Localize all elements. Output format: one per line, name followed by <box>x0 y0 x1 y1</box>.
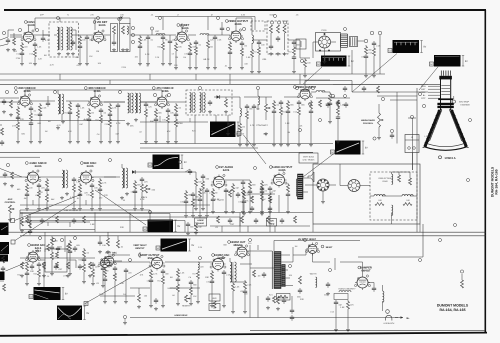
tube socket S5 yoke plug <box>348 180 360 192</box>
capacitor C20 det <box>209 100 211 102</box>
svg-text:100: 100 <box>378 199 381 202</box>
wire sync route 2 <box>20 213 170 215</box>
svg-text:10K: 10K <box>75 56 79 59</box>
svg-text:4.7K: 4.7K <box>84 118 89 121</box>
svg-text:BRIGHTNESS: BRIGHTNESS <box>361 119 375 122</box>
hv cage vertical <box>249 245 251 318</box>
wire band2 rail a <box>140 143 333 145</box>
coil L9 horiz defl left <box>374 195 385 196</box>
diode CR1 video det <box>217 95 220 99</box>
svg-text:1.5K: 1.5K <box>180 272 185 275</box>
resistor R53 left <box>29 220 32 228</box>
capacitor C22 drop <box>280 100 282 102</box>
wire band1 top rail a <box>35 17 130 19</box>
svg-text:CONTRAST: CONTRAST <box>256 124 268 127</box>
label HORIZ PHASE <box>195 218 207 226</box>
tube V12 AUDIO OUTPUT 6AQ5 <box>274 175 285 186</box>
resistor R13 in dashed box <box>270 25 273 33</box>
tube socket S3 top view <box>316 33 341 52</box>
wire bottom mid <box>257 296 259 318</box>
svg-text:R17: R17 <box>192 273 195 276</box>
coil L10 horiz defl right <box>402 195 413 196</box>
afc comps cluster <box>47 244 50 251</box>
svg-text:ION TRAP: ION TRAP <box>459 101 469 104</box>
boost cap C35 <box>373 286 375 288</box>
wire V8 plate run to CRT <box>304 81 306 88</box>
dashed box small band1 <box>251 21 265 31</box>
HV cage outline <box>274 240 360 242</box>
svg-text:VERT BLKG: VERT BLKG <box>303 156 315 159</box>
wire leader to W2 <box>352 54 397 93</box>
svg-text:L4B 1/2 L17M: L4B 1/2 L17M <box>64 209 78 212</box>
svg-text:1.5K: 1.5K <box>285 122 290 125</box>
svg-text:270K: 270K <box>63 275 68 278</box>
tube V21 DAMPER 6W4GT <box>357 277 368 288</box>
tube V13 HORIZ AFC 6AL5 <box>28 252 38 262</box>
wire right column feed <box>379 35 381 74</box>
svg-text:LIN: LIN <box>213 306 217 309</box>
left edge comps band3 <box>4 172 6 174</box>
transformer T4 secondary <box>135 93 137 113</box>
horiz osc cluster <box>253 270 256 277</box>
svg-text:4.7K: 4.7K <box>153 273 158 276</box>
wire box bottom leads <box>312 224 314 232</box>
tube V3 IF DET 6AU6 <box>177 32 187 42</box>
wire leader to W11 <box>15 194 83 221</box>
wire HV box right <box>422 224 424 257</box>
svg-text:R17: R17 <box>253 51 256 54</box>
tube V4 VIDEO OUTPUT 6AH6 <box>231 31 241 41</box>
transformer core box T2 <box>350 37 358 47</box>
pin circles contrast <box>270 21 273 24</box>
misc verticals band2 <box>194 115 196 144</box>
wire band3 heater <box>20 204 210 206</box>
peaking coils det out <box>240 108 241 116</box>
svg-text:R17: R17 <box>95 119 98 122</box>
sound takeoff wire <box>0 169 22 178</box>
svg-text:6BG6G: 6BG6G <box>233 244 242 247</box>
transformer T4 IF primary <box>128 93 130 113</box>
resistor R14 in dashed box <box>277 25 280 33</box>
svg-text:R17: R17 <box>157 280 160 283</box>
pin circles V2 <box>131 26 134 29</box>
schematic top border <box>4 9 486 11</box>
svg-text:270K: 270K <box>132 191 137 194</box>
resistor R57 <box>138 294 141 302</box>
grid circles V7 <box>153 93 156 96</box>
svg-text:4.7K: 4.7K <box>116 122 121 125</box>
svg-text:6AU6: 6AU6 <box>35 165 42 168</box>
wire interstage band1 <box>71 34 93 36</box>
tube V11 1ST AUDIO 6AV6 <box>214 177 225 188</box>
wire leader to W12 <box>15 201 76 241</box>
svg-text:100: 100 <box>406 199 409 202</box>
svg-text:2.2K: 2.2K <box>261 198 266 201</box>
solid box small band1 <box>296 39 306 49</box>
transformer T3 IF <box>58 94 60 114</box>
svg-text:C31: C31 <box>162 119 165 122</box>
svg-text:270K: 270K <box>16 57 21 60</box>
coil L6 4.5mc trap <box>258 96 260 105</box>
svg-text:5V: 5V <box>191 244 194 247</box>
tube V18 partial left <box>101 259 110 268</box>
svg-text:5V: 5V <box>177 225 180 228</box>
resistor R60 right <box>461 280 464 288</box>
waveform inset W1 <box>321 56 347 67</box>
svg-text:1.5K: 1.5K <box>37 46 42 49</box>
waveform inset W12 left edge <box>0 242 9 254</box>
wire socket S4 leads <box>305 184 317 186</box>
dashed shield box converter transformer <box>49 22 79 57</box>
boxed label freq control <box>267 219 277 227</box>
svg-text:270K: 270K <box>12 125 17 128</box>
svg-text:4.7K: 4.7K <box>57 124 62 127</box>
svg-text:5V: 5V <box>86 312 89 315</box>
svg-text:6AU6: 6AU6 <box>182 27 189 30</box>
grid cap V3 <box>181 27 183 30</box>
svg-text:1M: 1M <box>175 56 178 59</box>
pin circles V4 <box>226 27 229 30</box>
speaker <box>308 172 314 182</box>
ground T1 <box>58 52 60 54</box>
test points near CRT <box>418 92 421 95</box>
waveform inset W10 <box>57 306 82 321</box>
wire socket S5 to yoke <box>360 185 370 187</box>
svg-text:2.2K: 2.2K <box>42 107 47 110</box>
svg-text:SEE: SEE <box>421 91 426 94</box>
svg-text:C12: C12 <box>293 111 296 114</box>
bus comps band2 right <box>344 86 346 88</box>
capacitor C36 <box>267 296 269 298</box>
svg-text:1M: 1M <box>96 50 99 53</box>
waveform inset W3 <box>434 55 461 67</box>
tube V5 2ND VIDEO IF 6CB6 <box>20 96 30 106</box>
wire sync route 3 <box>28 216 240 218</box>
coil L8 vert defl <box>392 174 393 184</box>
coil L1 in box <box>127 26 128 34</box>
wire leader to W9 <box>43 266 45 287</box>
boxed 50000 control <box>277 294 291 301</box>
svg-text:P101: P101 <box>321 29 327 32</box>
svg-text:C31: C31 <box>184 53 187 56</box>
svg-text:2.2K: 2.2K <box>217 39 222 42</box>
svg-text:4.7K: 4.7K <box>143 196 148 199</box>
wire band2 cathode bus <box>0 120 125 122</box>
tube V17 HORIZ OSC <box>213 259 224 270</box>
pin dots S4 <box>327 186 328 187</box>
svg-text:HEIGHT: HEIGHT <box>182 305 191 308</box>
svg-text:12K: 12K <box>250 196 254 199</box>
svg-text:6CB6: 6CB6 <box>94 90 101 93</box>
IF input coil ladder L5 <box>341 33 348 35</box>
left edge extras band2 <box>1 128 4 135</box>
svg-text:C8: C8 <box>361 56 363 59</box>
svg-text:1M: 1M <box>242 126 245 129</box>
diamond X mark <box>121 17 123 19</box>
wire T2 out <box>358 40 365 42</box>
svg-text:6SN7GT: 6SN7GT <box>135 247 145 250</box>
svg-text:HORIZ: HORIZ <box>197 219 204 222</box>
svg-text:3.3K: 3.3K <box>241 14 246 17</box>
horiz lin coil L14 <box>339 291 351 293</box>
waveform inset W13 left edge <box>0 272 5 281</box>
svg-text:INTERLOCK: INTERLOCK <box>384 322 396 325</box>
contrast pot network <box>265 104 268 112</box>
svg-text:6AU6: 6AU6 <box>87 165 94 168</box>
interlock plug <box>386 310 390 314</box>
wire leader to W1 <box>303 67 322 84</box>
wire leader to W5 <box>303 152 336 177</box>
capacitor C31 <box>99 240 101 242</box>
phase area comps <box>251 196 254 203</box>
svg-text:4.7K: 4.7K <box>45 39 50 42</box>
volume control pot <box>145 185 148 193</box>
svg-text:1B3GT: 1B3GT <box>325 246 333 249</box>
comps under V13 <box>26 262 28 264</box>
tube V8 VIDEO OUTPUT 6AH6 <box>300 89 310 99</box>
flyback taps <box>281 254 290 256</box>
svg-text:DUMONT MODELS: DUMONT MODELS <box>437 303 469 307</box>
svg-text:R17: R17 <box>288 51 291 54</box>
svg-text:R40: R40 <box>157 46 160 49</box>
tube V14 VERT OSC <box>104 256 114 266</box>
svg-text:SIZE: SIZE <box>212 297 217 300</box>
wire sync takeoff <box>300 57 310 59</box>
transformer T5 det primary <box>190 93 192 113</box>
tube V6 3RD VIDEO IF 6CB6 <box>90 97 100 107</box>
left edge comps band2 <box>0 97 19 99</box>
wire damper leads <box>362 262 364 275</box>
ground T3 <box>57 126 59 128</box>
svg-text:VERT LIN: VERT LIN <box>167 287 177 290</box>
svg-text:C31: C31 <box>238 201 241 204</box>
svg-text:MET: MET <box>421 88 426 91</box>
svg-text:HORIZ DRIVE: HORIZ DRIVE <box>175 314 189 317</box>
peaking coil L3 <box>200 34 209 36</box>
svg-text:R17: R17 <box>64 112 67 115</box>
vert size control <box>209 294 220 301</box>
waveform inset W8 <box>161 239 188 252</box>
wire leader to W4 <box>244 135 267 164</box>
svg-text:2.2K: 2.2K <box>38 58 43 61</box>
shield box 2nd <box>120 24 131 52</box>
resistor R55 <box>117 240 120 248</box>
waveform inset W7 <box>148 220 174 233</box>
wire band1 signal path a <box>10 34 22 36</box>
ground contrast box <box>270 52 272 54</box>
coil L7 video out peaking <box>316 91 325 93</box>
test point X1 <box>119 18 121 20</box>
label V1 pin circles <box>18 28 21 31</box>
wire to V4 <box>207 34 230 36</box>
svg-text:2.2K: 2.2K <box>155 56 160 59</box>
svg-text:5V: 5V <box>65 293 68 296</box>
svg-text:1M: 1M <box>258 275 261 278</box>
tube socket S4 yoke plug <box>317 179 329 191</box>
resistor row band4 left <box>26 216 29 223</box>
wire yoke top link <box>392 171 411 173</box>
svg-text:4.7K: 4.7K <box>250 124 255 127</box>
sound band separator partial <box>0 156 40 158</box>
wire T1 links <box>54 34 57 36</box>
waveform inset W5 <box>335 141 361 155</box>
capacitor C3 <box>42 36 44 38</box>
ground near bottom border <box>124 321 126 323</box>
svg-text:4.7K: 4.7K <box>205 58 210 61</box>
svg-text:C12: C12 <box>330 311 333 314</box>
svg-text:6SN7: 6SN7 <box>219 257 226 260</box>
wire to 1st audio <box>140 171 196 173</box>
pot AGC <box>9 205 12 213</box>
coil L4 peaking <box>252 35 253 43</box>
svg-text:2.2K: 2.2K <box>247 284 252 287</box>
svg-text:R17: R17 <box>234 133 237 136</box>
tube V1 CONV 6AU8 <box>24 32 34 42</box>
wire band2/3 separator bus <box>0 151 313 153</box>
bottom band extra wires <box>100 261 150 263</box>
waveform inset W4 <box>210 122 236 138</box>
wire band4 mid cluster <box>210 225 310 227</box>
capacitor C27 coupling <box>189 169 191 171</box>
svg-text:R40: R40 <box>220 199 223 202</box>
svg-text:PHASE: PHASE <box>197 222 205 225</box>
wire band2 signal spine <box>0 101 20 103</box>
capacitor C34 hv <box>327 282 329 284</box>
test point circles right <box>364 39 368 43</box>
wire yoke connector <box>412 153 414 171</box>
wire band2 cathode bus right <box>140 121 208 123</box>
svg-text:C31: C31 <box>180 201 183 204</box>
svg-text:270K: 270K <box>121 66 126 69</box>
resistor R20 drop <box>17 106 19 108</box>
wire sync route left stub <box>20 229 95 231</box>
svg-text:L9: L9 <box>172 53 174 56</box>
svg-text:1M: 1M <box>45 130 48 133</box>
svg-text:OSC TRANS: OSC TRANS <box>303 159 315 162</box>
wire V4 plate up <box>235 18 237 29</box>
svg-text:C31: C31 <box>206 281 209 284</box>
capacitor C32 <box>155 298 157 300</box>
svg-text:1M: 1M <box>183 56 186 59</box>
svg-text:270K: 270K <box>104 123 109 126</box>
resistor R51 yoke damp <box>398 175 401 182</box>
resistor R54 <box>107 238 110 246</box>
svg-text:1.5K: 1.5K <box>235 286 240 289</box>
svg-text:6AQ5: 6AQ5 <box>278 169 286 172</box>
schematic right border <box>484 10 486 333</box>
antenna input network <box>0 37 8 40</box>
svg-text:CONTROL: CONTROL <box>363 122 374 125</box>
transformer T5 det secondary <box>200 93 202 113</box>
wire sync route 4 <box>28 220 185 222</box>
svg-text:6AH6: 6AH6 <box>235 23 242 26</box>
svg-text:4.7K: 4.7K <box>70 196 75 199</box>
svg-text:6CB6: 6CB6 <box>24 90 31 93</box>
wire V1 to T1 <box>34 34 51 36</box>
svg-text:R40: R40 <box>78 259 81 262</box>
pin dots socket S3 <box>319 50 321 52</box>
resistor R39 drop <box>46 178 48 180</box>
coil ladder L12 <box>297 178 303 180</box>
wire sync bus lower <box>20 235 486 237</box>
wire to socket <box>288 39 300 41</box>
svg-text:1.5K: 1.5K <box>80 107 85 110</box>
svg-text:1M: 1M <box>287 131 290 134</box>
wire HV box bottom <box>358 256 423 258</box>
transformer T1 primary <box>57 27 59 50</box>
capacitor C33 pair <box>291 308 293 310</box>
svg-text:R17: R17 <box>282 111 285 114</box>
svg-text:2.2K: 2.2K <box>198 246 203 249</box>
svg-text:2.2K: 2.2K <box>209 192 214 195</box>
svg-text:1.5K: 1.5K <box>102 244 107 247</box>
svg-text:6CB6: 6CB6 <box>162 90 169 93</box>
wire HV lead <box>293 254 306 256</box>
tube V9 SOUND IF 6AU6 <box>28 172 39 183</box>
svg-text:1M: 1M <box>295 245 298 248</box>
wire V10 out <box>92 176 120 178</box>
svg-text:1.5K: 1.5K <box>246 56 251 59</box>
left edge extras band4 <box>2 256 5 263</box>
svg-text:10K: 10K <box>205 276 209 279</box>
svg-text:5V: 5V <box>423 46 426 49</box>
wire leader to W10 <box>85 262 158 304</box>
wire V2 out <box>104 34 110 36</box>
audio output transformer T8 <box>298 174 304 199</box>
resistor R50 drop <box>287 183 289 185</box>
B+ arrow <box>395 317 403 319</box>
diode CR2 <box>132 170 135 174</box>
left bottom comps <box>104 268 106 270</box>
resistor R3 in box <box>113 26 116 34</box>
wire band3 spine <box>0 176 22 178</box>
shield box 1st IF <box>111 24 118 52</box>
socket pin circle <box>344 28 347 31</box>
brightness pot R36 <box>378 113 381 127</box>
svg-text:HV RECT 1B3GT: HV RECT 1B3GT <box>298 238 317 241</box>
capacitor C10 <box>221 26 223 28</box>
capacitor C4 in box <box>72 40 74 42</box>
waveform inset W12b left edge <box>0 255 8 262</box>
wire yoke drop <box>412 118 414 170</box>
wire bottom B+ rail <box>250 329 485 331</box>
schematic bottom border <box>0 333 487 336</box>
wire V3 out <box>188 34 196 36</box>
svg-text:C12: C12 <box>29 53 32 56</box>
wire socket leads <box>313 41 318 43</box>
svg-text:2.2K: 2.2K <box>376 45 381 48</box>
wire hv cage <box>292 247 294 262</box>
wire band4 left cluster <box>20 221 90 223</box>
resistor R10 drop <box>229 41 231 43</box>
solid box audio/yoke enclosure <box>313 164 420 224</box>
wire V1 plate <box>28 26 30 30</box>
coil L11 vert defl lower <box>392 205 393 215</box>
svg-text:6AH6: 6AH6 <box>303 89 310 92</box>
flyback secondary winding <box>282 265 285 287</box>
svg-text:R17: R17 <box>34 114 37 117</box>
wire CRT cathode feed <box>377 95 417 97</box>
svg-text:DEFLECTION: DEFLECTION <box>379 177 392 180</box>
wire band2 rail b <box>140 147 258 149</box>
svg-text:VERT OSC: VERT OSC <box>105 252 117 255</box>
wire sync route 1 <box>20 209 150 211</box>
svg-text:1M: 1M <box>91 112 94 115</box>
svg-text:4.7K: 4.7K <box>102 182 107 185</box>
resistor R15 in dashed box <box>283 25 286 33</box>
vert lin control <box>209 304 220 311</box>
resistor R59 <box>277 296 280 304</box>
